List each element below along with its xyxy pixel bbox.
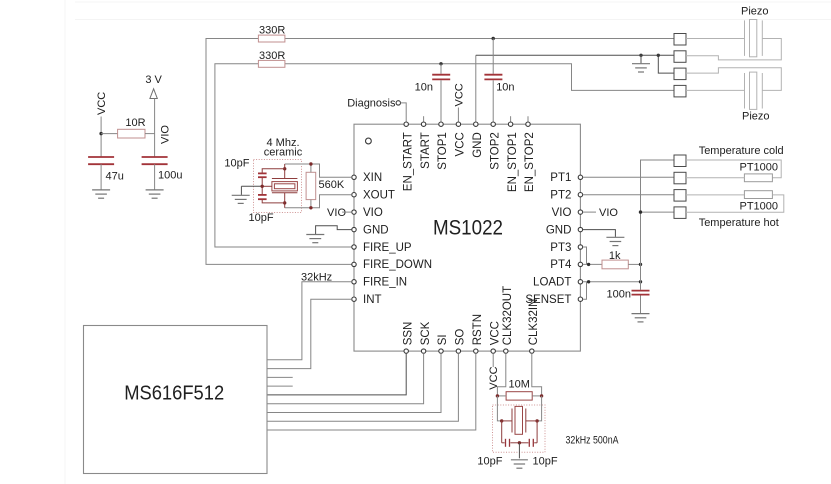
- MS1022 bottom pins: [404, 349, 534, 353]
- MS1022 bottom pin labels: [402, 286, 540, 345]
- wire VIO stub right: [583, 211, 596, 213]
- wire right rail into crystal: [537, 396, 542, 421]
- wire GND right pin to ground: [583, 230, 616, 237]
- junction STOP2 tap on wire1: [492, 37, 495, 40]
- capacitor C 10n (left, STOP1): [440, 64, 442, 74]
- svg-text:PT2: PT2: [550, 190, 571, 202]
- crystal Y1 4MHz ceramic resonator: [272, 178, 298, 180]
- svg-text:LOADT: LOADT: [533, 277, 571, 289]
- wire PT4 to 1k: [583, 263, 602, 265]
- MS1022 right pins: [578, 175, 582, 301]
- wire 47u to ground: [100, 164, 102, 189]
- wire caps midpoint to ground / resonator center: [261, 177, 263, 195]
- svg-text:PT3: PT3: [550, 242, 571, 254]
- capacitor 10pF (right of 32kHz): [534, 442, 537, 444]
- wire SO to MCU: [267, 353, 458, 421]
- wire SCK to MCU: [267, 353, 424, 403]
- junction STOP1 tap on wire2: [439, 62, 442, 65]
- op-amp/IC U1 MS1022 body: [354, 124, 580, 351]
- svg-text:VIO: VIO: [599, 207, 618, 219]
- ground (below 100u): [146, 190, 164, 198]
- svg-text:VIO: VIO: [160, 125, 172, 144]
- svg-text:VCC: VCC: [96, 92, 108, 115]
- wire pad4 to piezo2: [686, 89, 745, 91]
- wire VCC stub bottom: [492, 353, 494, 367]
- MS1022 left pin labels: [363, 172, 432, 306]
- svg-text:32kHz 500nA: 32kHz 500nA: [566, 434, 620, 446]
- wire PT2 to connector: [583, 194, 674, 196]
- wire LOADT/SENSET: [583, 281, 641, 283]
- svg-text:GND: GND: [472, 132, 484, 158]
- svg-text:VCC: VCC: [453, 83, 465, 106]
- svg-text:SO: SO: [455, 329, 467, 346]
- wire sensor common rail: [641, 160, 675, 282]
- IC U2 MS616F512: [84, 326, 268, 474]
- svg-text:10pF: 10pF: [533, 456, 558, 468]
- capacitor C 100u: [142, 156, 168, 158]
- pin-1 marker O on MS1022: [366, 138, 372, 144]
- svg-text:SSN: SSN: [402, 322, 414, 346]
- wire left rail into crystal: [497, 396, 501, 421]
- svg-text:SCK: SCK: [420, 321, 432, 345]
- ground (below 47u): [92, 190, 110, 198]
- 32kHz crystal dashed box: [493, 405, 546, 452]
- connector pads piezo (4 squares): [674, 34, 686, 46]
- svg-text:CLK32OUT: CLK32OUT: [502, 286, 514, 345]
- wire pad1 to piezo1: [686, 38, 745, 40]
- svg-text:560K: 560K: [319, 179, 345, 191]
- svg-text:STOP1: STOP1: [437, 132, 449, 170]
- wire net FIRE_UP / 330R#2 / piezo2 bottom: [215, 64, 352, 247]
- svg-text:XOUT: XOUT: [363, 190, 395, 202]
- ground (left GND pin): [306, 235, 324, 243]
- capacitor C 47u: [88, 156, 114, 158]
- wire PT3 to PT4: [583, 247, 587, 264]
- pin stub START: [423, 116, 425, 121]
- wire SSN to MCU: [267, 353, 406, 395]
- junction GND/ground: [639, 54, 642, 57]
- svg-text:VIO: VIO: [327, 207, 346, 219]
- svg-text:PT1000: PT1000: [740, 201, 779, 213]
- wire MCU spare stub 1: [267, 376, 293, 378]
- svg-text:MS616F512: MS616F512: [124, 383, 224, 405]
- ground (resonator): [240, 186, 242, 195]
- MS1022 right pin labels: [525, 172, 572, 306]
- ground (32kHz): [511, 460, 528, 468]
- piezo transducer 2: [744, 73, 746, 109]
- wire GND net to piezo connector (dark): [475, 55, 477, 121]
- svg-text:Piezo: Piezo: [741, 5, 769, 17]
- wire piezo1 return to pad2: [686, 39, 781, 60]
- svg-text:XIN: XIN: [363, 172, 382, 184]
- MS1022 top pins: [404, 122, 530, 126]
- svg-text:10pF: 10pF: [477, 456, 502, 468]
- MS1022 top pin labels: [402, 132, 536, 192]
- svg-text:FIRE_IN: FIRE_IN: [363, 277, 407, 289]
- svg-text:FIRE_DOWN: FIRE_DOWN: [363, 259, 432, 271]
- resistor PT1000 (hot): [686, 194, 744, 196]
- wire 100u to ground: [154, 164, 156, 189]
- MS1022 left pins: [352, 175, 356, 301]
- svg-text:PT1000: PT1000: [740, 161, 779, 173]
- ground (100n): [632, 314, 650, 322]
- wire VIO stub left: [342, 211, 352, 213]
- svg-text:VIO: VIO: [363, 207, 383, 219]
- ground (piezo common): [640, 55, 642, 63]
- svg-text:STOP2: STOP2: [489, 132, 501, 170]
- svg-text:3 V: 3 V: [145, 74, 162, 86]
- svg-text:10n: 10n: [415, 82, 433, 94]
- svg-text:START: START: [420, 132, 432, 169]
- 4MHz resonator dashed box: [254, 160, 302, 213]
- svg-text:10M: 10M: [509, 379, 530, 391]
- ground (right GND pin): [606, 237, 624, 245]
- wire net FIRE_DOWN / 330R#1 / piezo1 top: [206, 39, 352, 265]
- svg-text:47u: 47u: [106, 171, 124, 183]
- svg-text:VCC: VCC: [489, 321, 501, 345]
- junction caps midpoint: [518, 441, 521, 444]
- wire pad3 to piezo2 return: [686, 68, 781, 91]
- piezo transducer 1: [744, 20, 746, 56]
- wire XOUT net (bottom): [285, 195, 352, 208]
- wire SI to MCU: [267, 353, 441, 412]
- wire FIRE_IN to MCU: [267, 282, 352, 360]
- svg-text:SI: SI: [437, 334, 449, 345]
- svg-text:VIO: VIO: [552, 207, 572, 219]
- svg-text:100u: 100u: [158, 170, 182, 182]
- wire 10R right to VIO: [145, 133, 155, 135]
- wire PT1 to connector: [583, 176, 674, 178]
- svg-text:Temperature cold: Temperature cold: [699, 145, 784, 157]
- svg-text:EN_STOP2: EN_STOP2: [524, 132, 536, 192]
- svg-text:FIRE_UP: FIRE_UP: [363, 242, 412, 254]
- junction VCC/10R: [99, 132, 102, 135]
- svg-text:10pF: 10pF: [224, 158, 249, 170]
- svg-text:Diagnosis: Diagnosis: [347, 98, 396, 110]
- svg-text:INT: INT: [363, 294, 382, 306]
- wire GND left pin to ground: [316, 226, 352, 234]
- svg-text:EN_STOP1: EN_STOP1: [507, 132, 519, 192]
- wire VIO rail vertical: [154, 99, 156, 158]
- svg-text:EN_START: EN_START: [402, 132, 414, 191]
- svg-text:GND: GND: [363, 224, 389, 236]
- wire CLK32OUT to 10M/crystal: [497, 353, 505, 396]
- connector pads PT1000 (4 squares): [674, 155, 686, 167]
- capacitor 10pF (top): [258, 172, 267, 174]
- crystal Y2 32kHz: [511, 409, 513, 433]
- svg-text:VCC: VCC: [455, 132, 467, 156]
- capacitor 10pF (bottom): [258, 194, 267, 196]
- capacitor 10pF (left of 32kHz): [502, 442, 505, 444]
- svg-text:RSTN: RSTN: [472, 314, 484, 345]
- svg-text:100n: 100n: [607, 288, 631, 300]
- junction GND/pad3 branch: [657, 54, 660, 57]
- svg-text:ceramic: ceramic: [264, 147, 303, 159]
- svg-text:Piezo: Piezo: [742, 111, 770, 123]
- svg-text:GND: GND: [546, 224, 572, 236]
- wire to ground (32kHz): [518, 443, 520, 459]
- wire VCC stub top: [457, 108, 459, 122]
- wire Diagnosis to EN_START: [401, 103, 407, 122]
- wire 10R left: [101, 133, 118, 135]
- wire CLK32IN to 10M/crystal: [532, 353, 542, 396]
- svg-text:MS1022: MS1022: [433, 216, 503, 240]
- svg-text:PT4: PT4: [550, 259, 572, 271]
- svg-text:PT1: PT1: [550, 172, 571, 184]
- wire RSTN to MCU: [267, 353, 476, 430]
- wire VCC rail vertical: [100, 117, 102, 158]
- wire INT to MCU: [267, 299, 352, 368]
- capacitor C 10n (right, STOP2): [492, 39, 494, 74]
- svg-text:10R: 10R: [125, 117, 145, 129]
- svg-text:Temperature hot: Temperature hot: [699, 217, 779, 229]
- svg-text:CLK32IN: CLK32IN: [528, 299, 540, 346]
- wire XIN net (top): [285, 164, 352, 177]
- svg-text:10pF: 10pF: [249, 212, 274, 224]
- pin stub EN_STOP2: [527, 116, 529, 121]
- wire MCU spare stub 2: [267, 385, 293, 387]
- pin stub EN_STOP1: [510, 116, 512, 121]
- svg-text:10n: 10n: [496, 82, 514, 94]
